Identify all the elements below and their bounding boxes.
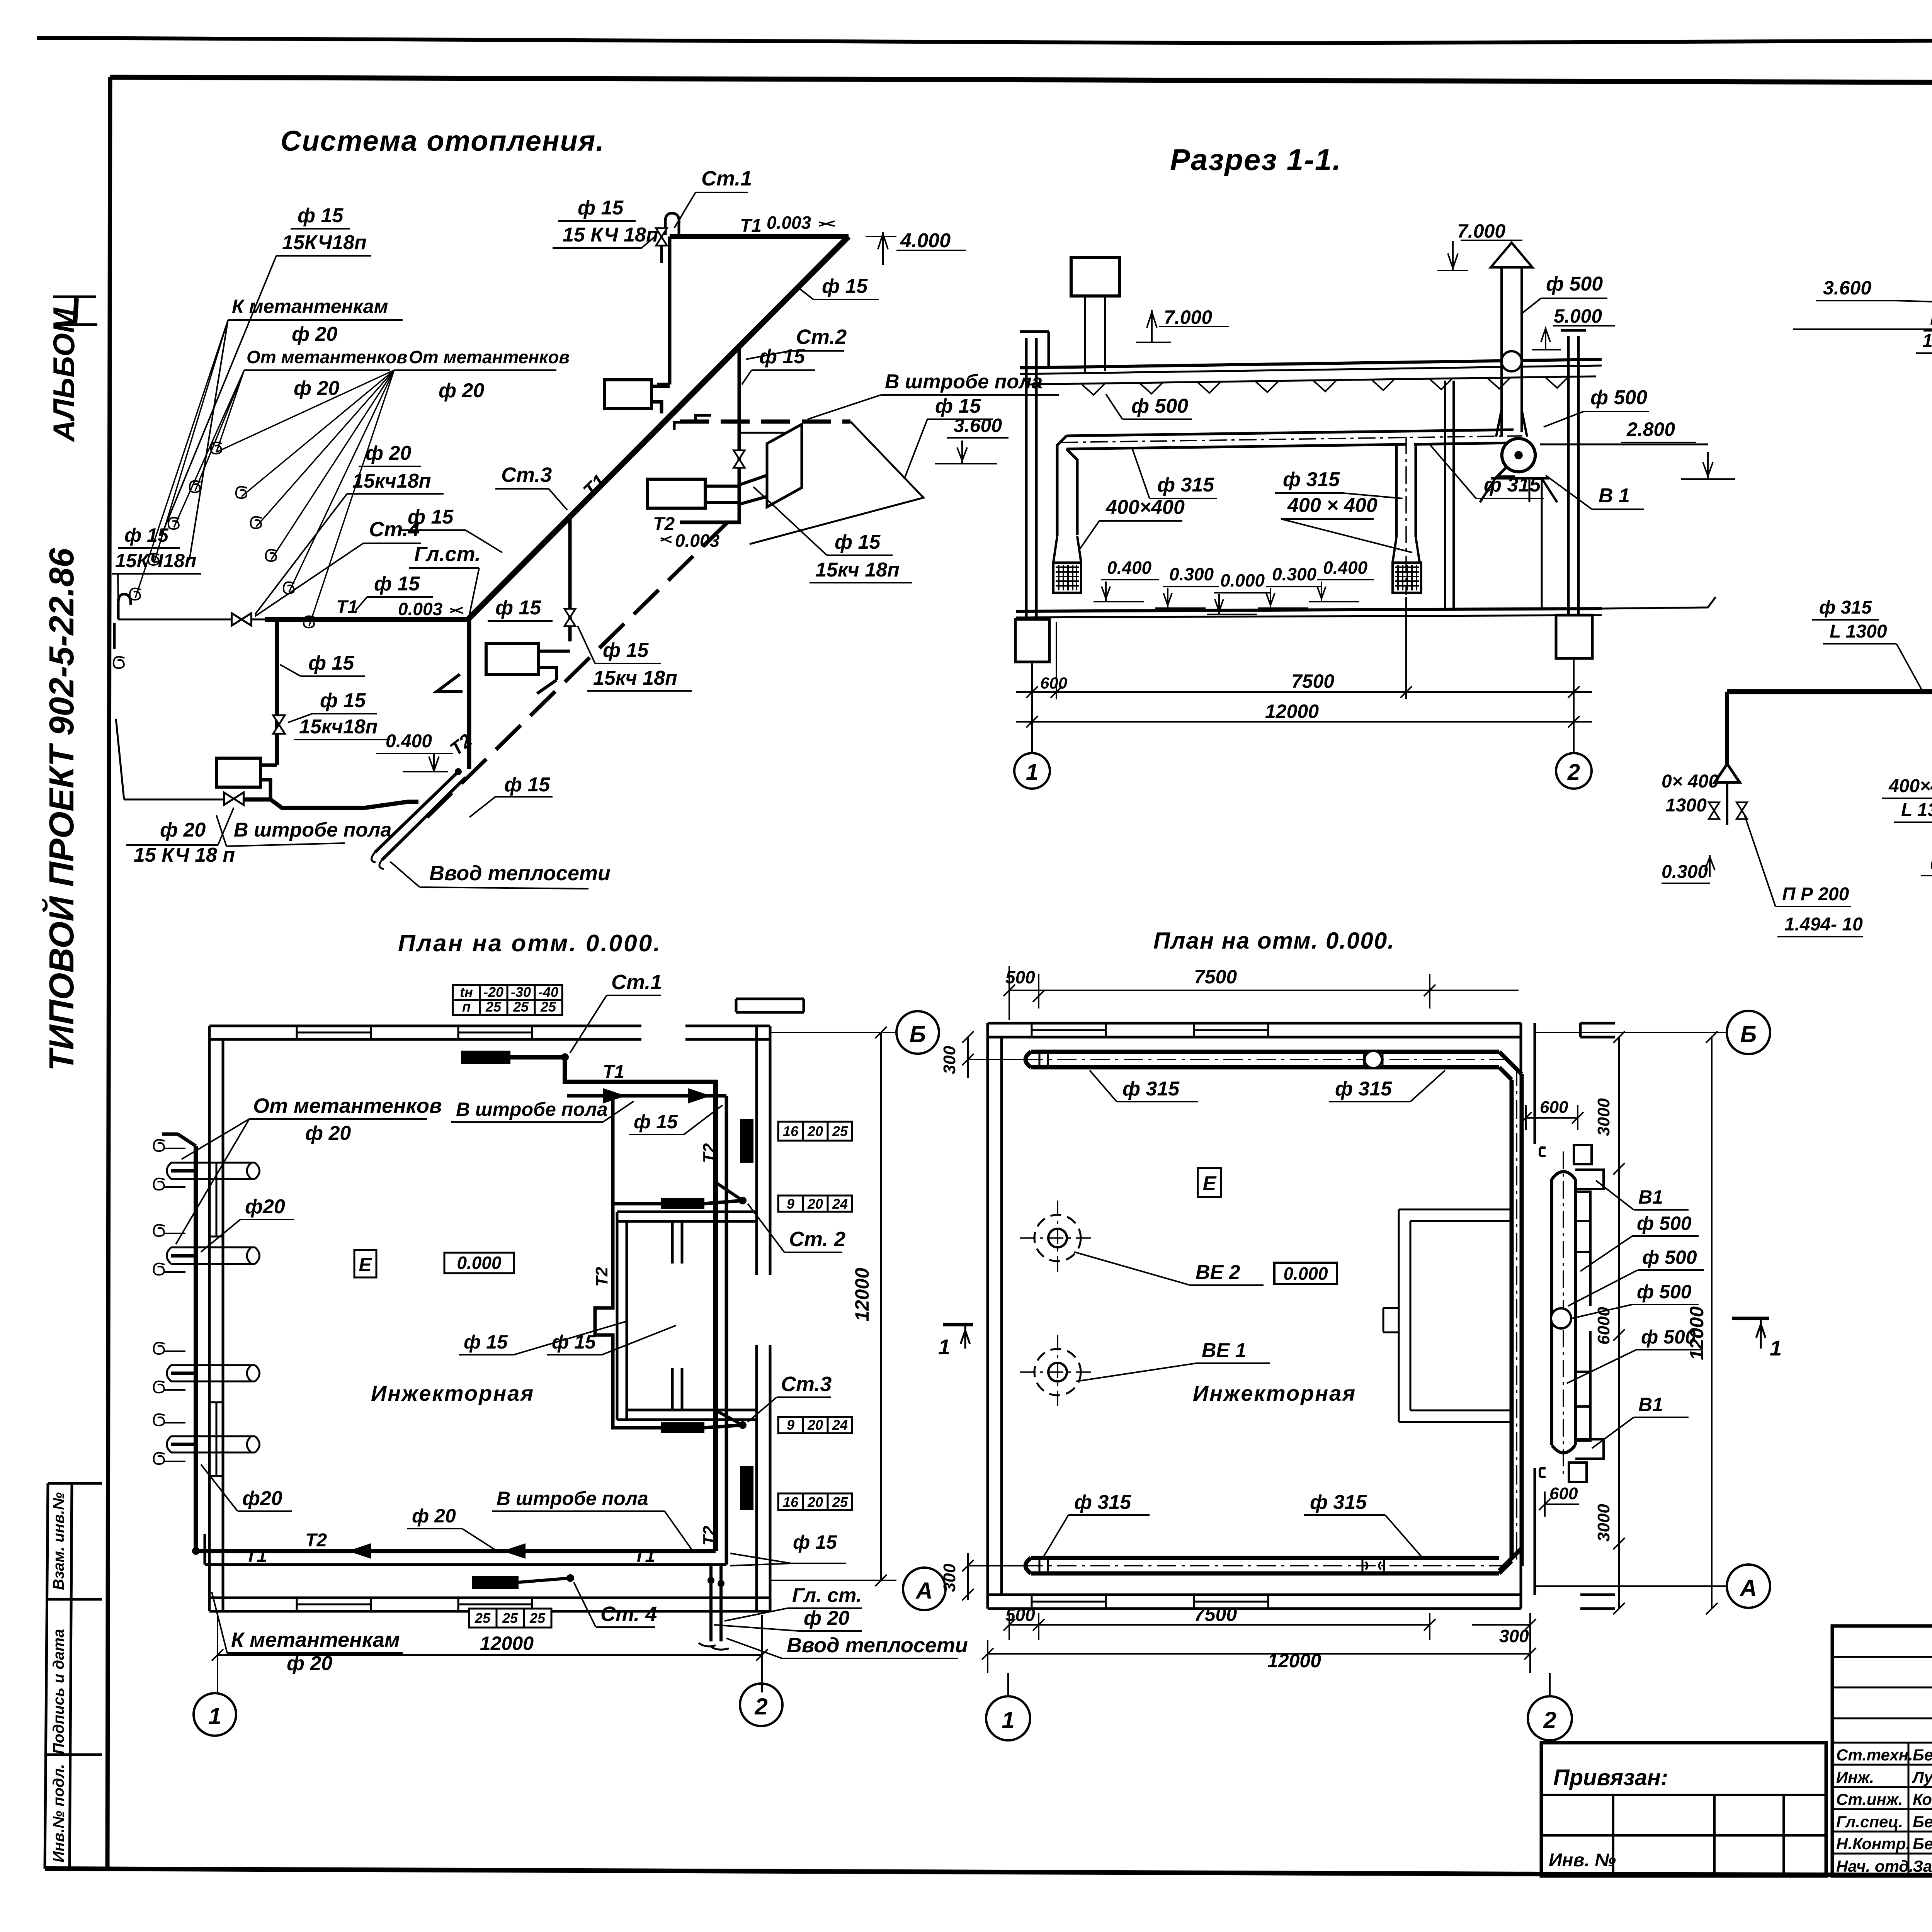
svg-text:300: 300 bbox=[940, 1563, 959, 1592]
top dimension bbox=[1003, 966, 1519, 1020]
upper-left f15 label bbox=[282, 204, 367, 254]
elevation 7.000 right bbox=[1437, 240, 1522, 270]
svg-text:ф 15: ф 15 bbox=[835, 531, 881, 553]
svg-text:7500: 7500 bbox=[1291, 670, 1334, 692]
fan of leader lines 1 bbox=[135, 320, 244, 598]
svg-text:ф 15: ф 15 bbox=[320, 689, 366, 712]
svg-text:Гл.ст.: Гл.ст. bbox=[414, 543, 481, 566]
svg-text:Инжекторная: Инжекторная bbox=[371, 1381, 534, 1405]
roof slab bbox=[1020, 359, 1602, 368]
axis1 footing bbox=[1015, 619, 1049, 662]
svg-text:ф 15: ф 15 bbox=[822, 275, 868, 298]
T2 horizontal at St.2 bbox=[680, 520, 741, 524]
svg-text:Инжекторная: Инжекторная bbox=[1193, 1381, 1356, 1405]
svg-text:Т2: Т2 bbox=[592, 1267, 611, 1287]
radiator C stubs bbox=[739, 475, 767, 504]
svg-text:0.000: 0.000 bbox=[457, 1253, 502, 1273]
svg-text:Ст.техн.: Ст.техн. bbox=[1836, 1746, 1913, 1764]
svg-text:Ст.1: Ст.1 bbox=[611, 971, 662, 994]
axis circles bottom bbox=[1008, 1673, 1550, 1696]
svg-text:В 1: В 1 bbox=[1599, 485, 1630, 507]
svg-text:План на отм. 0.000.: План на отм. 0.000. bbox=[398, 930, 662, 957]
svg-text:ф 20: ф 20 bbox=[804, 1607, 849, 1629]
svg-text:ф 15: ф 15 bbox=[464, 1331, 508, 1353]
svg-text:400×400: 400×400 bbox=[1888, 776, 1932, 796]
svg-text:9: 9 bbox=[787, 1196, 794, 1212]
elevation 5.000 bbox=[1532, 326, 1615, 350]
building walls bbox=[988, 1023, 1615, 1609]
svg-text:Инж.: Инж. bbox=[1836, 1768, 1874, 1786]
svg-text:ф 15: ф 15 bbox=[124, 524, 169, 546]
St.2 branch riser bbox=[738, 348, 741, 522]
mid duct drop bbox=[1396, 444, 1416, 537]
svg-text:1.494- 10: 1.494- 10 bbox=[1784, 914, 1863, 935]
flow arrows on pipes bbox=[348, 1543, 526, 1559]
svg-text:П Р 200: П Р 200 bbox=[1782, 884, 1849, 905]
axis circles right bbox=[1535, 1032, 1727, 1586]
frame bottom edge bbox=[45, 1869, 1932, 1877]
svg-text:3000: 3000 bbox=[1594, 1504, 1613, 1542]
svg-text:3.600: 3.600 bbox=[1823, 277, 1871, 299]
svg-text:0.300: 0.300 bbox=[1272, 564, 1317, 584]
dim line 2 bbox=[1016, 699, 1592, 753]
svg-text:7.000: 7.000 bbox=[1164, 306, 1212, 328]
svg-text:20: 20 bbox=[807, 1123, 823, 1139]
svg-text:500: 500 bbox=[1005, 1605, 1035, 1625]
svg-text:3.600: 3.600 bbox=[954, 415, 1002, 436]
svg-text:Ст.инж.: Ст.инж. bbox=[1836, 1790, 1903, 1808]
svg-text:От метантенков: От метантенков bbox=[253, 1094, 442, 1117]
svg-text:2: 2 bbox=[1567, 760, 1580, 785]
svg-text:ф 15: ф 15 bbox=[495, 597, 541, 619]
svg-text:16: 16 bbox=[783, 1123, 799, 1139]
svg-text:ф 315: ф 315 bbox=[1074, 1491, 1131, 1514]
axis2 column bbox=[1561, 330, 1586, 615]
svg-text:ф 500: ф 500 bbox=[1131, 395, 1188, 417]
svg-text:25: 25 bbox=[474, 1610, 491, 1626]
svg-text:20: 20 bbox=[807, 1196, 823, 1212]
svg-text:ф 20: ф 20 bbox=[412, 1505, 456, 1527]
svg-text:ф 15: ф 15 bbox=[634, 1111, 678, 1133]
inner partition right bbox=[1383, 1209, 1512, 1422]
svg-text:tн: tн bbox=[460, 984, 473, 1000]
svg-text:ф 15: ф 15 bbox=[298, 204, 344, 227]
windows top/bottom walls bbox=[1032, 1023, 1268, 1609]
svg-text:0.400: 0.400 bbox=[386, 731, 432, 752]
radiators (filled) bbox=[461, 1051, 510, 1064]
PR200 label left bbox=[1782, 884, 1863, 935]
squiggles on fan ends bbox=[211, 442, 222, 454]
tilted radiator C bbox=[767, 424, 802, 507]
right wall bbox=[757, 1026, 770, 1611]
svg-text:1: 1 bbox=[938, 1335, 950, 1359]
svg-text:20: 20 bbox=[807, 1417, 823, 1433]
bottom dimension bbox=[212, 1615, 768, 1692]
svg-text:А: А bbox=[915, 1578, 932, 1604]
svg-text:300: 300 bbox=[940, 1046, 959, 1074]
label f15 15kch18p below radiator C bbox=[815, 531, 900, 581]
svg-text:3000: 3000 bbox=[1594, 1098, 1613, 1136]
svg-text:12000: 12000 bbox=[1267, 1650, 1321, 1672]
svg-text:-20: -20 bbox=[483, 984, 503, 1000]
right shaft umbrella bbox=[1491, 243, 1532, 267]
svg-text:ф 20: ф 20 bbox=[160, 819, 206, 841]
right axis circles bbox=[770, 1027, 896, 1586]
svg-text:0.000: 0.000 bbox=[1283, 1264, 1328, 1284]
vvod pipes bottom right bbox=[711, 1565, 721, 1641]
left column boxes bbox=[45, 1483, 102, 1869]
top wall bbox=[209, 1026, 770, 1039]
svg-text:ф 20: ф 20 bbox=[294, 377, 339, 400]
svg-text:2: 2 bbox=[754, 1694, 767, 1719]
svg-text:Лукоянова: Лукоянова bbox=[1912, 1768, 1932, 1786]
svg-text:15 КЧ 18 п: 15 КЧ 18 п bbox=[134, 844, 235, 866]
left f15 label low bbox=[115, 524, 196, 571]
St.3 branch bbox=[568, 516, 572, 641]
svg-text:ф20: ф20 bbox=[245, 1196, 285, 1218]
svg-text:0.003: 0.003 bbox=[398, 599, 443, 619]
svg-text:ф 15: ф 15 bbox=[552, 1331, 596, 1353]
svg-text:12000: 12000 bbox=[1686, 1306, 1708, 1360]
svg-text:16: 16 bbox=[783, 1494, 799, 1510]
label f15 15kch18p St.1 bbox=[563, 197, 658, 246]
svg-text:ф 20: ф 20 bbox=[366, 442, 411, 464]
bottom dims bbox=[1003, 1613, 1435, 1640]
thin left horizontal to building edge bbox=[118, 619, 265, 621]
svg-text:500: 500 bbox=[1005, 967, 1035, 987]
svg-text:1.494-10: 1.494-10 bbox=[1922, 331, 1932, 351]
svg-text:25: 25 bbox=[502, 1610, 518, 1626]
svg-text:Т2: Т2 bbox=[305, 1530, 327, 1551]
svg-text:ф 20: ф 20 bbox=[439, 379, 484, 402]
E box / 0.000 bbox=[1198, 1168, 1221, 1197]
label f15 15kch18p at St.3 valve bbox=[593, 639, 677, 689]
T2 zigzag St.3 outlet bbox=[437, 674, 556, 694]
label f15 15kch18p valve717 bbox=[299, 689, 378, 738]
svg-text:Б: Б bbox=[1740, 1021, 1757, 1047]
building walls bbox=[209, 999, 804, 1611]
svg-text:ф 315: ф 315 bbox=[1484, 474, 1541, 496]
top-right detached wall piece bbox=[736, 999, 804, 1012]
400x400 partial label left bbox=[1662, 771, 1719, 816]
svg-text:15кч18п: 15кч18п bbox=[299, 716, 378, 738]
svg-text:ф 315: ф 315 bbox=[1335, 1078, 1392, 1100]
svg-text:Т1: Т1 bbox=[603, 1062, 624, 1082]
svg-text:Е: Е bbox=[359, 1254, 372, 1276]
T2 routing along inner room bbox=[595, 1097, 743, 1428]
windows top wall bbox=[209, 1026, 532, 1611]
svg-text:Разрез 1-1.: Разрез 1-1. bbox=[1170, 143, 1342, 177]
svg-text:Гл. ст.: Гл. ст. bbox=[792, 1584, 862, 1607]
right exhaust assembly bbox=[1552, 1172, 1575, 1453]
svg-text:400 × 400: 400 × 400 bbox=[1287, 494, 1378, 517]
svg-text:Б: Б bbox=[910, 1021, 926, 1047]
svg-text:ф 500: ф 500 bbox=[1642, 1247, 1697, 1268]
svg-text:Подпись и дата: Подпись и дата bbox=[50, 1629, 67, 1754]
svg-text:15кч 18п: 15кч 18п bbox=[593, 667, 677, 689]
V shtrobe pola dashed floor line bbox=[680, 420, 850, 424]
pipes bbox=[196, 1146, 716, 1551]
valve on St.1 bbox=[656, 228, 667, 246]
duct loop top bbox=[1026, 1052, 1522, 1573]
svg-text:Ст.1: Ст.1 bbox=[701, 167, 752, 190]
riser dots right bbox=[739, 1197, 747, 1204]
circle joint on right shaft bbox=[1502, 351, 1522, 371]
svg-text:А: А bbox=[1739, 1575, 1757, 1601]
radiator D bbox=[217, 758, 260, 787]
svg-text:Ст. 4: Ст. 4 bbox=[600, 1602, 657, 1626]
label f20 15kch18p bottom-left bbox=[134, 819, 235, 866]
svg-text:Королев: Королев bbox=[1913, 1790, 1932, 1808]
svg-text:План на отм. 0.000.: План на отм. 0.000. bbox=[1153, 928, 1395, 954]
svg-text:7500: 7500 bbox=[1194, 966, 1237, 988]
svg-text:600: 600 bbox=[1549, 1484, 1578, 1503]
svg-text:9: 9 bbox=[787, 1417, 794, 1433]
svg-text:7.000: 7.000 bbox=[1457, 220, 1505, 242]
methane cylinders left bbox=[154, 1140, 260, 1464]
svg-text:ф 500: ф 500 bbox=[1637, 1213, 1692, 1234]
svg-text:-40: -40 bbox=[538, 984, 558, 1000]
svg-text:ф 315: ф 315 bbox=[1819, 597, 1872, 618]
svg-text:Ст. 2: Ст. 2 bbox=[789, 1228, 845, 1251]
svg-text:25: 25 bbox=[513, 999, 529, 1015]
signature block bbox=[1832, 1626, 1932, 1876]
svg-text:Беспалько: Беспалько bbox=[1913, 1746, 1932, 1764]
svg-text:Гл.спец.: Гл.спец. bbox=[1836, 1813, 1903, 1831]
svg-text:ф 315: ф 315 bbox=[1122, 1078, 1180, 1100]
bottom shtrobe line bbox=[243, 799, 418, 808]
axis1 column bbox=[1020, 332, 1049, 617]
duct centerlines bbox=[1024, 1060, 1517, 1566]
svg-text:ф 500: ф 500 bbox=[1637, 1281, 1692, 1303]
svg-text:0.003: 0.003 bbox=[767, 213, 811, 233]
svg-text:15КЧ18п: 15КЧ18п bbox=[282, 231, 367, 254]
BE circles bbox=[1020, 1201, 1095, 1410]
svg-text:1300: 1300 bbox=[1665, 795, 1707, 816]
floor plane quad bbox=[739, 422, 923, 544]
duct from fan to right bbox=[1540, 444, 1708, 446]
svg-text:ф 20: ф 20 bbox=[305, 1122, 351, 1145]
svg-text:Ввод теплосети: Ввод теплосети bbox=[787, 1634, 968, 1657]
svg-text:Т1: Т1 bbox=[245, 1546, 267, 1566]
fan B1 section bbox=[1497, 439, 1535, 477]
fan of leader lines 2 bbox=[216, 370, 394, 626]
svg-text:1: 1 bbox=[1002, 1707, 1014, 1733]
svg-text:ф 15: ф 15 bbox=[759, 345, 805, 368]
left 300 dims bbox=[962, 1031, 1024, 1078]
svg-text:ф 15: ф 15 bbox=[578, 197, 624, 219]
svg-text:0.300: 0.300 bbox=[1662, 862, 1708, 882]
left grille bbox=[1053, 563, 1081, 593]
svg-text:В штробе пола: В штробе пола bbox=[234, 819, 391, 841]
svg-text:ВЕ 1: ВЕ 1 bbox=[1202, 1339, 1247, 1362]
second horizontal duct bbox=[1727, 689, 1932, 694]
left exhaust shaft cap bbox=[1071, 257, 1119, 296]
svg-text:В1: В1 bbox=[1638, 1394, 1663, 1415]
svg-text:24: 24 bbox=[832, 1417, 848, 1433]
svg-text:Т1: Т1 bbox=[740, 216, 762, 236]
svg-text:В штробе пола: В штробе пола bbox=[456, 1099, 608, 1120]
roof serration bbox=[1082, 376, 1569, 395]
left pipe hook bbox=[114, 594, 131, 649]
svg-text:0.300: 0.300 bbox=[1169, 564, 1214, 584]
vertical drop x717 bbox=[275, 619, 279, 765]
svg-text:Инв.№ подл.: Инв.№ подл. bbox=[50, 1764, 67, 1862]
svg-text:2: 2 bbox=[1543, 1707, 1556, 1733]
axis2 footing bbox=[1556, 615, 1592, 658]
svg-text:В1: В1 bbox=[1638, 1186, 1663, 1208]
section marks bbox=[943, 1323, 973, 1327]
bottom wall bbox=[209, 1598, 770, 1611]
svg-text:Ст.3: Ст.3 bbox=[501, 463, 552, 486]
svg-text:ф 15: ф 15 bbox=[504, 774, 550, 796]
svg-text:ВЕ 2: ВЕ 2 bbox=[1196, 1261, 1240, 1284]
svg-text:Ст.3: Ст.3 bbox=[781, 1372, 832, 1396]
bottom-left thin line and valve bbox=[124, 799, 224, 801]
svg-text:Т2: Т2 bbox=[700, 1143, 719, 1163]
svg-text:Инв. №: Инв. № bbox=[1549, 1850, 1616, 1871]
riser St.1 bbox=[657, 236, 670, 384]
svg-text:ф 15: ф 15 bbox=[603, 639, 649, 662]
St.1 air hook bbox=[662, 213, 679, 263]
svg-text:АЛЬБОМ: АЛЬБОМ bbox=[47, 307, 81, 442]
svg-text:От метантенков: От метантенков bbox=[247, 347, 407, 367]
svg-text:В штробе пола: В штробе пола bbox=[497, 1488, 648, 1509]
main duct f315 bbox=[1066, 430, 1514, 449]
svg-text:Березинский: Березинский bbox=[1913, 1813, 1932, 1831]
svg-text:4.000: 4.000 bbox=[900, 230, 951, 252]
svg-text:0.300: 0.300 bbox=[1930, 854, 1932, 874]
svg-text:К метантенкам: К метантенкам bbox=[231, 1628, 400, 1651]
svg-text:12000: 12000 bbox=[480, 1633, 534, 1654]
PR200 label 1 bbox=[1922, 308, 1932, 351]
svg-text:П Р 200: П Р 200 bbox=[1930, 308, 1932, 329]
svg-text:25: 25 bbox=[832, 1494, 848, 1510]
interior wall bbox=[1445, 381, 1454, 611]
svg-text:Ст.4: Ст.4 bbox=[369, 518, 420, 541]
svg-text:300: 300 bbox=[1499, 1626, 1529, 1646]
svg-text:25: 25 bbox=[540, 999, 556, 1015]
svg-text:2.800: 2.800 bbox=[1626, 418, 1675, 440]
svg-text:ф 500: ф 500 bbox=[1590, 386, 1647, 409]
svg-text:1: 1 bbox=[1770, 1336, 1782, 1360]
svg-text:ф 15: ф 15 bbox=[793, 1531, 837, 1553]
Е box and 0.000 bbox=[354, 1250, 376, 1277]
svg-text:25: 25 bbox=[529, 1610, 546, 1626]
right dims bbox=[1520, 1031, 1625, 1614]
svg-text:ф20: ф20 bbox=[242, 1487, 282, 1510]
radiator A stubs bbox=[651, 386, 670, 413]
svg-text:0.003: 0.003 bbox=[675, 531, 720, 551]
cone to fan bbox=[1496, 410, 1527, 437]
svg-text:ф 15: ф 15 bbox=[935, 395, 981, 417]
svg-text:25: 25 bbox=[485, 999, 502, 1015]
svg-text:ТИПОВОЙ ПРОЕКТ 902-5-22.86: ТИПОВОЙ ПРОЕКТ 902-5-22.86 bbox=[41, 548, 81, 1071]
svg-text:24: 24 bbox=[832, 1196, 848, 1212]
svg-text:Нач. отд.: Нач. отд. bbox=[1836, 1857, 1913, 1875]
radiator A bbox=[604, 380, 651, 408]
left duct taper to grille bbox=[1053, 536, 1081, 563]
svg-text:Н.Контр.: Н.Контр. bbox=[1836, 1835, 1910, 1853]
svg-text:0× 400: 0× 400 bbox=[1662, 771, 1719, 792]
svg-text:12000: 12000 bbox=[851, 1268, 873, 1321]
svg-text:ф 315: ф 315 bbox=[1310, 1491, 1367, 1514]
frame left edge bbox=[107, 77, 110, 1869]
svg-text:1: 1 bbox=[208, 1703, 221, 1729]
svg-text:Т2: Т2 bbox=[700, 1526, 719, 1546]
svg-text:Взам. инв.№: Взам. инв.№ bbox=[50, 1492, 67, 1590]
left shaft bbox=[1085, 296, 1105, 372]
svg-text:25: 25 bbox=[832, 1123, 848, 1139]
tables bbox=[453, 985, 852, 1628]
T2 dashed main diagonal bbox=[427, 514, 736, 817]
svg-text:0.400: 0.400 bbox=[1107, 558, 1152, 578]
privyazan block bbox=[1541, 1743, 1826, 1876]
T1 top horizontal bbox=[670, 234, 849, 239]
svg-text:ф 315: ф 315 bbox=[1283, 468, 1340, 491]
elevation 4.000 bbox=[866, 232, 966, 265]
main T1 diagonal bbox=[468, 236, 849, 619]
svg-text:15кч 18п: 15кч 18п bbox=[815, 559, 900, 581]
left drop x4470 bbox=[1725, 692, 1729, 782]
svg-text:ф 500: ф 500 bbox=[1546, 273, 1603, 295]
f315 L1300 label h2 bbox=[1819, 597, 1887, 642]
svg-text:Березинский: Березинский bbox=[1913, 1835, 1932, 1853]
duct symbols bbox=[1365, 1051, 1382, 1068]
svg-text:Т1: Т1 bbox=[634, 1546, 655, 1566]
svg-text:От метантенков: От метантенков bbox=[409, 347, 570, 367]
axis circles bottom bbox=[194, 1693, 236, 1736]
Gl.st riser lower bbox=[467, 619, 471, 769]
svg-text:Т2: Т2 bbox=[653, 514, 675, 534]
svg-text:Привязан:: Привязан: bbox=[1553, 1765, 1668, 1790]
svg-text:600: 600 bbox=[1040, 674, 1067, 692]
svg-text:L 1300: L 1300 bbox=[1830, 621, 1887, 642]
elevation 7.000 left bbox=[1136, 310, 1229, 342]
svg-text:0.400: 0.400 bbox=[1323, 558, 1368, 578]
svg-text:400×400: 400×400 bbox=[1105, 496, 1185, 519]
400x400 label mid2 bbox=[1888, 776, 1932, 820]
svg-text:15кч18п: 15кч18п bbox=[352, 470, 431, 492]
svg-text:0.000: 0.000 bbox=[1220, 570, 1265, 590]
svg-text:ф 15: ф 15 bbox=[374, 573, 420, 595]
frame top edge bbox=[110, 77, 1932, 84]
svg-text:п: п bbox=[462, 999, 471, 1015]
mid f20 label bbox=[352, 442, 431, 492]
svg-text:6000: 6000 bbox=[1594, 1307, 1613, 1345]
left duct elbow down bbox=[1057, 436, 1077, 536]
floor slab bbox=[1016, 609, 1602, 611]
dim line 1 bbox=[1016, 597, 1592, 699]
svg-text:Е: Е bbox=[1203, 1172, 1217, 1195]
svg-text:15КЧ18п: 15КЧ18п bbox=[115, 550, 196, 571]
svg-text:5.000: 5.000 bbox=[1554, 305, 1602, 327]
svg-text:ф 20: ф 20 bbox=[292, 323, 337, 345]
svg-text:ф 15: ф 15 bbox=[308, 652, 354, 674]
axis circles bbox=[1014, 753, 1050, 789]
svg-text:-30: -30 bbox=[511, 984, 531, 1000]
svg-text:1: 1 bbox=[1026, 760, 1038, 785]
left wall bbox=[209, 1026, 223, 1611]
top page line bbox=[37, 38, 1932, 43]
svg-text:Завьялов: Завьялов bbox=[1913, 1857, 1932, 1875]
svg-text:600: 600 bbox=[1540, 1098, 1568, 1117]
svg-text:7500: 7500 bbox=[1194, 1604, 1237, 1625]
svg-text:12000: 12000 bbox=[1265, 701, 1319, 722]
svg-text:ф 315: ф 315 bbox=[1157, 474, 1214, 496]
svg-text:20: 20 bbox=[807, 1494, 823, 1510]
svg-text:В штробе пола: В штробе пола bbox=[885, 371, 1043, 393]
